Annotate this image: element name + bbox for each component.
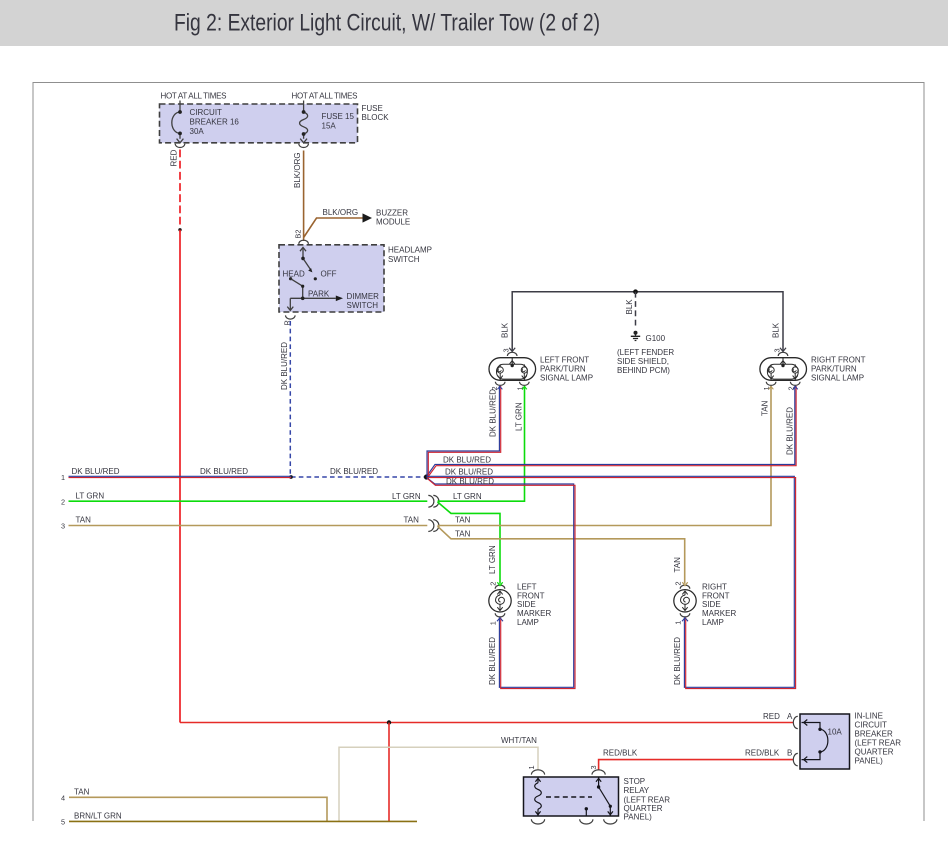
wire RED/BLK from stop relay to breaker	[599, 760, 794, 771]
connector left lamp pin 1	[520, 382, 530, 386]
svg-text:MARKER: MARKER	[702, 609, 736, 618]
svg-text:DK BLU/RED: DK BLU/RED	[786, 407, 795, 455]
svg-text:TAN: TAN	[455, 516, 471, 525]
wire DK BLU/RED lower branch to left side marker (blue)	[427, 478, 574, 688]
connector below headlamp switch pin R	[286, 315, 296, 319]
connector at headlamp switch pin B2	[299, 240, 309, 244]
svg-text:TAN: TAN	[673, 557, 682, 573]
connector left lamp pin 2	[495, 382, 505, 386]
svg-text:HEADLAMP: HEADLAMP	[388, 246, 432, 255]
relay dashed link	[546, 796, 592, 798]
arrow to buzzer module	[363, 213, 373, 222]
svg-text:3: 3	[502, 348, 511, 352]
connector left marker pin 1	[495, 613, 505, 617]
node PARK dot	[301, 297, 305, 301]
svg-text:SIGNAL LAMP: SIGNAL LAMP	[540, 374, 593, 383]
wire BRN/LT GRN bottom line 5	[69, 820, 417, 822]
wire RED horizontal at bottom	[180, 722, 794, 724]
left front side marker lamp	[489, 590, 511, 612]
svg-text:B: B	[787, 749, 792, 758]
svg-text:RED/BLK: RED/BLK	[745, 749, 780, 758]
svg-text:30A: 30A	[190, 127, 205, 136]
connector on TAN line	[428, 520, 439, 532]
svg-text:RED: RED	[170, 149, 179, 166]
svg-text:FUSE: FUSE	[362, 104, 383, 113]
svg-text:TAN: TAN	[74, 788, 90, 797]
svg-text:STOP: STOP	[624, 777, 646, 786]
svg-text:PANEL): PANEL)	[855, 757, 884, 766]
svg-text:DK BLU/RED: DK BLU/RED	[443, 456, 491, 465]
wire DK BLU/RED bus line 1 (blue)	[69, 475, 292, 477]
wire DK BLU/RED main bus to right side marker (blue)	[427, 476, 795, 687]
connector left marker pin 2	[495, 585, 505, 589]
svg-text:SIDE: SIDE	[702, 600, 721, 609]
headlamp switch box	[279, 245, 384, 312]
svg-text:LT GRN: LT GRN	[515, 402, 524, 431]
svg-text:MARKER: MARKER	[517, 609, 551, 618]
left front park/turn signal lamp	[489, 358, 536, 381]
svg-text:BLK: BLK	[501, 322, 510, 338]
svg-text:PANEL): PANEL)	[624, 813, 653, 822]
splice dot	[289, 475, 293, 479]
svg-text:10A: 10A	[828, 728, 843, 737]
svg-text:2: 2	[673, 581, 682, 585]
svg-text:DK BLU/RED: DK BLU/RED	[673, 637, 682, 685]
connector right marker pin 2	[680, 585, 690, 589]
node HEAD dot	[289, 277, 292, 280]
svg-text:BUZZER: BUZZER	[376, 209, 408, 218]
wire TAN bottom line 4	[69, 797, 327, 821]
wire DK BLU/RED bus line 1 (red)	[69, 477, 292, 479]
svg-text:1: 1	[489, 621, 498, 625]
svg-text:LAMP: LAMP	[517, 618, 539, 627]
chevron into right lamp pin 3	[780, 348, 786, 352]
wire LT GRN bus line 2	[69, 500, 428, 502]
svg-text:5: 5	[61, 818, 65, 827]
svg-text:BLOCK: BLOCK	[362, 113, 390, 122]
wire TAN to right park/turn lamp pin 1	[438, 386, 772, 526]
svg-text:IN-LINE: IN-LINE	[855, 712, 883, 721]
svg-text:DK BLU/RED: DK BLU/RED	[200, 467, 248, 476]
svg-text:LT GRN: LT GRN	[453, 492, 482, 501]
svg-text:TAN: TAN	[761, 400, 770, 416]
junction dot on red wire	[387, 720, 391, 724]
svg-text:LEFT FRONT: LEFT FRONT	[540, 356, 589, 365]
svg-text:A: A	[787, 712, 793, 721]
svg-text:SIGNAL LAMP: SIGNAL LAMP	[811, 374, 864, 383]
wire DK BLU/RED dashed vertical from headlamp switch	[289, 321, 291, 477]
svg-text:HOT AT ALL TIMES: HOT AT ALL TIMES	[161, 92, 227, 101]
wire LT GRN branch to left side marker	[438, 502, 501, 584]
headlamp switch internal: input arrow	[300, 247, 311, 269]
arrow to dimmer switch	[336, 296, 343, 302]
svg-text:WHT/TAN: WHT/TAN	[501, 736, 537, 745]
in-line circuit breaker box	[800, 714, 850, 769]
svg-text:TAN: TAN	[455, 529, 471, 538]
svg-text:FRONT: FRONT	[702, 591, 730, 600]
right front park/turn signal lamp	[760, 358, 807, 381]
splice dot on RED wire	[178, 228, 181, 231]
wire RED dashed from circuit breaker	[179, 150, 181, 227]
junction dot BLK	[633, 289, 638, 294]
svg-text:QUARTER: QUARTER	[855, 748, 894, 757]
svg-text:BLK: BLK	[771, 322, 780, 338]
chevron into left lamp pin 3	[509, 348, 515, 352]
svg-text:HOT AT ALL TIMES: HOT AT ALL TIMES	[292, 92, 358, 101]
svg-text:DK BLU/RED: DK BLU/RED	[72, 467, 120, 476]
svg-text:PARK/TURN: PARK/TURN	[811, 365, 857, 374]
connector right lamp pin 1	[766, 382, 776, 386]
wire BLK top bus	[512, 292, 783, 352]
chevrons under left lamp pins	[497, 387, 502, 390]
breaker internals	[802, 720, 828, 763]
svg-text:DK BLU/RED: DK BLU/RED	[488, 389, 497, 437]
wire BLK/ORG from fuse 15	[303, 151, 305, 242]
svg-text:MODULE: MODULE	[376, 218, 410, 227]
wire DK BLU/RED lower branch (red)	[427, 479, 575, 689]
circuit breaker 16	[172, 101, 184, 143]
svg-text:RIGHT: RIGHT	[702, 582, 727, 591]
node OFF dot	[314, 277, 317, 280]
svg-text:DK BLU/RED: DK BLU/RED	[330, 467, 378, 476]
svg-text:CIRCUIT: CIRCUIT	[855, 721, 888, 730]
svg-text:PARK: PARK	[308, 290, 330, 299]
wire WHT/TAN	[339, 747, 538, 821]
svg-text:4: 4	[61, 794, 65, 803]
connectors below stop relay	[531, 819, 544, 824]
svg-text:1: 1	[527, 765, 536, 769]
chevron bottom pin	[497, 618, 503, 621]
pivot dot	[301, 257, 305, 261]
svg-text:BRN/LT GRN: BRN/LT GRN	[74, 812, 122, 821]
svg-text:TAN: TAN	[404, 516, 420, 525]
svg-text:HEAD: HEAD	[283, 270, 305, 279]
fuse block box	[160, 104, 358, 143]
svg-text:LT GRN: LT GRN	[76, 492, 105, 501]
svg-text:FRONT: FRONT	[517, 591, 545, 600]
wire DK BLU/RED dashed horizontal to junction	[291, 476, 427, 478]
connector right lamp pin 3	[778, 352, 788, 356]
chevron green wire end	[497, 582, 502, 585]
svg-text:LAMP: LAMP	[702, 618, 724, 627]
connector right marker pin 1	[680, 613, 690, 617]
svg-text:DIMMER: DIMMER	[347, 292, 380, 301]
svg-text:2: 2	[489, 582, 498, 586]
junction node dot	[424, 474, 429, 479]
switch wiper HEAD-PARK	[287, 279, 336, 311]
connector below circuit breaker	[175, 144, 185, 148]
connector left lamp pin 3	[507, 352, 517, 356]
wire RED vertical to bottom edge	[388, 723, 390, 822]
wire RED solid down to bottom	[179, 230, 181, 723]
svg-text:(LEFT REAR: (LEFT REAR	[855, 739, 902, 748]
svg-text:SIDE SHIELD,: SIDE SHIELD,	[617, 357, 669, 366]
svg-text:FUSE 15: FUSE 15	[322, 112, 355, 121]
chevrons under right lamp pins	[769, 387, 774, 390]
svg-text:BLK: BLK	[625, 299, 634, 315]
svg-text:(LEFT FENDER: (LEFT FENDER	[617, 348, 674, 357]
svg-text:RIGHT FRONT: RIGHT FRONT	[811, 356, 866, 365]
svg-text:CIRCUIT: CIRCUIT	[190, 108, 223, 117]
svg-text:RELAY: RELAY	[624, 786, 650, 795]
wire TAN branch to right side marker	[438, 526, 685, 584]
svg-text:3: 3	[772, 348, 781, 352]
wire DK BLU/RED main bus (red)	[427, 478, 796, 689]
svg-text:LEFT: LEFT	[517, 582, 537, 591]
chevron tan wire end	[682, 582, 687, 585]
svg-text:B2: B2	[293, 230, 302, 239]
connector stop relay pin 1	[531, 770, 544, 775]
svg-text:TAN: TAN	[76, 516, 92, 525]
wire TAN bus line 3	[69, 525, 428, 527]
wire DK BLU/RED upper branch (red)	[428, 386, 796, 477]
right front side marker lamp	[674, 590, 696, 612]
svg-text:DK BLU/RED: DK BLU/RED	[488, 637, 497, 685]
relay contact	[586, 777, 613, 816]
svg-text:SIDE: SIDE	[517, 600, 536, 609]
svg-text:RED: RED	[763, 712, 780, 721]
connector on LT GRN line	[428, 495, 439, 507]
svg-text:DK BLU/RED: DK BLU/RED	[445, 468, 493, 477]
connector terminal B	[793, 753, 798, 765]
svg-text:DK BLU/RED: DK BLU/RED	[446, 477, 494, 486]
connector below fuse 15	[299, 144, 309, 148]
connector terminal A	[793, 716, 798, 728]
svg-text:1: 1	[673, 621, 682, 625]
wire (red)	[428, 386, 500, 476]
svg-text:RED/BLK: RED/BLK	[603, 749, 638, 758]
svg-text:OFF: OFF	[321, 270, 337, 279]
svg-text:G100: G100	[646, 334, 666, 343]
svg-text:BREAKER: BREAKER	[855, 730, 893, 739]
svg-text:BREAKER 16: BREAKER 16	[190, 118, 240, 127]
wire LT GRN to left park/turn lamp pin 1	[438, 386, 525, 501]
svg-text:DK BLU/RED: DK BLU/RED	[280, 342, 289, 390]
relay coil	[535, 777, 542, 816]
connector right lamp pin 2	[790, 382, 800, 386]
connector stop relay pin 3	[592, 770, 605, 775]
ground G100	[634, 331, 638, 335]
svg-text:BLK/ORG: BLK/ORG	[293, 152, 302, 188]
svg-text:3: 3	[61, 522, 65, 531]
wire BLK/ORG branch to buzzer module	[304, 218, 363, 238]
svg-text:LT GRN: LT GRN	[488, 545, 497, 574]
svg-text:Fig 2: Exterior Light Circuit,: Fig 2: Exterior Light Circuit, W/ Traile…	[174, 10, 600, 37]
svg-text:SWITCH: SWITCH	[347, 301, 379, 310]
wire DK BLU/RED upper branch to right lamp pin 2 (blue)	[427, 386, 795, 477]
chevron bottom pin	[682, 618, 688, 621]
wire DK BLU/RED from left park/turn pin 2 to junction (blue)	[427, 386, 499, 475]
svg-text:BLK/ORG: BLK/ORG	[323, 208, 359, 217]
svg-text:PARK/TURN: PARK/TURN	[540, 365, 586, 374]
svg-text:1: 1	[61, 473, 65, 482]
svg-text:SWITCH: SWITCH	[388, 255, 420, 264]
wire BLK dashed to ground	[635, 292, 637, 329]
svg-text:BEHIND PCM): BEHIND PCM)	[617, 366, 670, 375]
svg-text:2: 2	[61, 497, 65, 506]
stop relay box	[524, 777, 619, 816]
fuse 15	[300, 101, 308, 143]
svg-text:15A: 15A	[322, 122, 337, 131]
svg-text:LT GRN: LT GRN	[392, 492, 421, 501]
header bar	[0, 0, 948, 46]
svg-text:3: 3	[589, 765, 598, 769]
